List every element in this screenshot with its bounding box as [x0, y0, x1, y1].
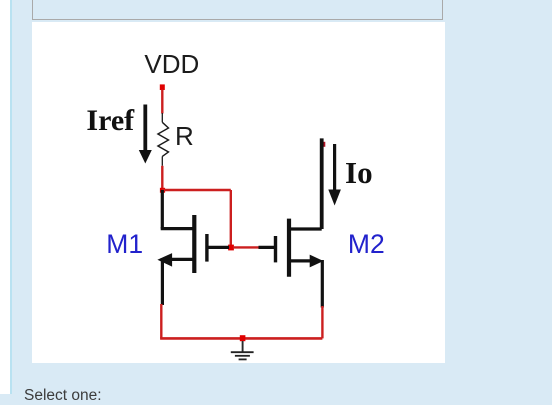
wire M2 source to bottom rail (red)	[321, 306, 323, 338]
svg-text:M2: M2	[348, 229, 385, 259]
node VDD terminal (red square)	[160, 84, 165, 90]
transistor M2 source arrow	[310, 255, 324, 268]
node A junction (red square)	[160, 188, 165, 193]
ground bar 1	[231, 351, 254, 353]
svg-text:Iref: Iref	[86, 104, 135, 137]
node ground junction (red square)	[240, 335, 246, 341]
transistor M1 gate lead	[207, 246, 229, 249]
transistor M2 source connect	[289, 259, 312, 262]
wire down to gate junction (red)	[230, 190, 232, 247]
wire M1 source to bottom rail (red)	[160, 304, 162, 338]
transistor M1 source arrow	[157, 253, 172, 267]
transistor M2 drain connect	[289, 227, 322, 230]
transistor M2 drain lead	[320, 138, 324, 229]
node M2 drain terminal (red square, mostly hidden)	[321, 142, 326, 147]
Select one: prompt (cut off at bottom)	[24, 387, 102, 405]
transistor M2 gate lead	[259, 246, 276, 249]
current arrow Io head	[328, 190, 341, 206]
current arrow Iref head	[139, 150, 152, 164]
svg-text:VDD: VDD	[144, 49, 199, 79]
transistor M2 gate bar	[274, 236, 277, 262]
wire bottom rail (red)	[160, 337, 322, 340]
transistor M2 channel bar	[287, 219, 291, 277]
white schematic canvas	[32, 22, 445, 363]
resistor R1 top lead	[161, 113, 163, 122]
wire node A to right (red)	[162, 189, 231, 191]
ground stub	[242, 341, 244, 352]
svg-text:Io: Io	[345, 155, 373, 190]
ground bar 2	[235, 355, 250, 357]
svg-text:M1: M1	[106, 229, 143, 259]
transistor M1 channel bar	[192, 215, 196, 273]
node gate junction (red square)	[228, 245, 234, 251]
transistor M1 source lead	[161, 258, 164, 305]
transistor M1 source connect	[170, 258, 194, 261]
ground bar 3	[239, 358, 247, 360]
transistor M1 drain lead	[161, 190, 164, 229]
left white margin strip	[0, 0, 10, 394]
transistor M1 drain connect	[161, 227, 195, 230]
wire junction to M2 gate (red)	[233, 246, 259, 248]
transistor M2 source lead	[321, 260, 324, 308]
wire resistor to node A (red)	[161, 166, 163, 190]
top collapsed info bar	[32, 0, 443, 20]
resistor R zigzag	[158, 122, 169, 156]
current arrow Iref shaft	[143, 105, 147, 153]
svg-text:R: R	[175, 121, 194, 151]
resistor R bottom lead	[161, 156, 163, 165]
transistor M1 gate bar	[205, 234, 208, 262]
current arrow Io shaft	[333, 144, 336, 192]
cyan page-edge line	[10, 0, 12, 394]
wire VDD to resistor (red)	[161, 90, 163, 114]
